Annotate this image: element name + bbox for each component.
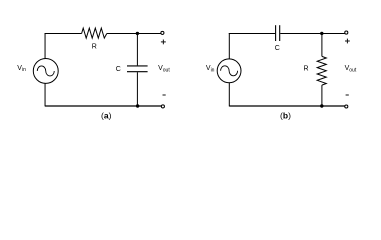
- wire left upper (a): [44, 33, 46, 59]
- svg-text:R: R: [304, 66, 309, 73]
- label plus (b): [345, 39, 350, 44]
- wire resistor top lead (b): [321, 34, 323, 57]
- wire bottom (b): [229, 105, 344, 107]
- wire top-right (a): [107, 33, 161, 35]
- terminal - (b): [345, 105, 348, 108]
- svg-text:C: C: [116, 66, 121, 73]
- resistor R (b): [317, 56, 326, 85]
- node junction bottom (b): [320, 104, 323, 107]
- wire top-left (a): [45, 33, 82, 35]
- svg-text:C: C: [275, 45, 280, 52]
- svg-text:(a): (a): [101, 111, 112, 121]
- wire top-right (b): [280, 33, 345, 35]
- terminal + (b): [345, 31, 348, 34]
- resistor R (a): [82, 28, 107, 38]
- label plus (a): [161, 40, 166, 45]
- wire capacitor top lead (a): [136, 34, 138, 66]
- svg-text:(b): (b): [280, 111, 291, 121]
- wire capacitor bottom lead (a): [136, 72, 138, 106]
- label minus (a): [163, 94, 166, 96]
- source V2 AC (b): [217, 59, 241, 83]
- wire bottom (a): [45, 105, 161, 107]
- svg-text:R: R: [92, 44, 97, 51]
- node junction bottom (a): [136, 104, 139, 107]
- source V1 AC (a): [33, 58, 58, 83]
- wire left lower (a): [44, 83, 46, 106]
- wire resistor bottom lead (b): [321, 85, 323, 106]
- capacitor C (a): [127, 66, 148, 72]
- node junction top (a): [136, 32, 139, 35]
- capacitor C (b): [276, 25, 280, 41]
- terminal - (a): [161, 105, 164, 108]
- wire left lower (b): [228, 83, 230, 107]
- node junction top (b): [320, 32, 323, 35]
- terminal + (a): [161, 31, 164, 34]
- wire top-left (b): [229, 33, 275, 35]
- wire left upper (b): [228, 33, 230, 59]
- label minus (b): [346, 94, 349, 96]
